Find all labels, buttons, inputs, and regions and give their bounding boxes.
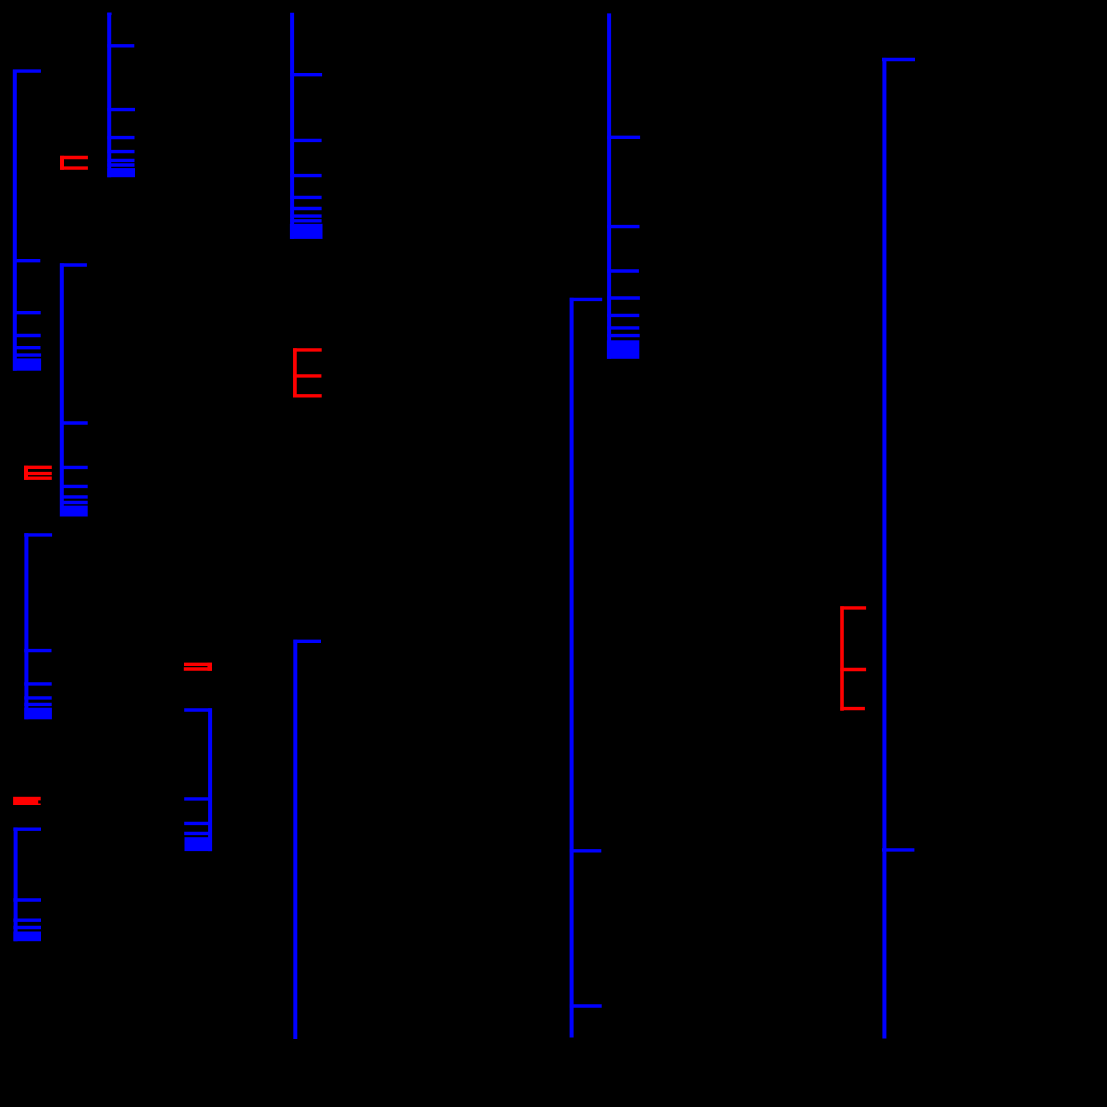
tree T2 <box>107 13 135 177</box>
tree T6 (mirrored, trunk on right) <box>184 708 212 851</box>
red fragment R5 <box>840 606 866 711</box>
red fragment R1 <box>60 156 88 170</box>
long bracket L11 <box>882 58 915 1039</box>
tree T7 <box>290 13 323 239</box>
red fragment R6 <box>13 797 41 805</box>
long bracket L10 <box>570 298 602 1038</box>
red fragment R2 <box>293 348 322 397</box>
tree T9 <box>607 13 640 358</box>
tree T1 <box>13 70 41 371</box>
long bracket L8 <box>293 640 321 1039</box>
tree T4 <box>24 533 52 719</box>
red fragment R3 <box>24 466 52 480</box>
red fragment R4 (mirrored, spine on right) <box>184 663 212 671</box>
tree T5 <box>13 827 41 941</box>
tree T3 <box>60 263 88 516</box>
